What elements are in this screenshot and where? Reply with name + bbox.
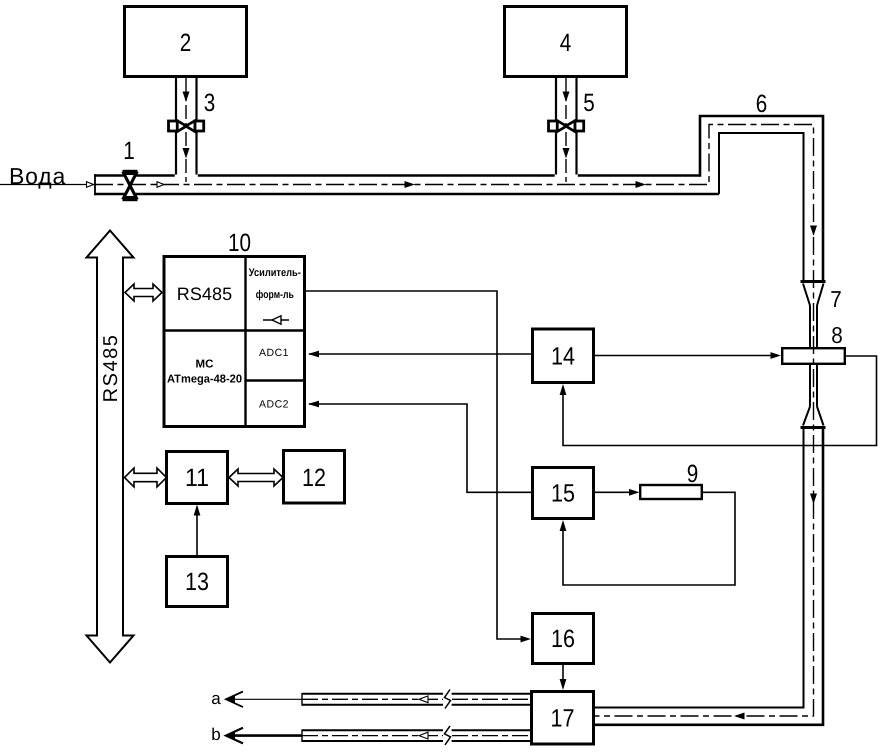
wire 16 to 17 xyxy=(562,665,564,680)
flow arrow down pipe2 lower xyxy=(183,148,190,159)
wire 15 to ADC2 xyxy=(309,404,532,492)
arrow into 17 top xyxy=(560,679,567,690)
wire output a xyxy=(227,698,302,700)
pipe main horizontal: top edge segments xyxy=(94,174,700,177)
pipe riser inner wall and top run inner edge and downpipe left wall xyxy=(719,133,804,282)
valve 3 on pipe2 xyxy=(169,121,204,132)
flow arrow downpipe upper xyxy=(810,226,817,237)
RS485 bus vertical double arrow xyxy=(87,231,134,663)
box 14 xyxy=(533,329,594,383)
arrow into element 9 xyxy=(629,489,640,496)
bus link arrow to RS485 cell xyxy=(125,284,162,301)
valve 1 on inlet xyxy=(123,170,138,201)
bus link arrow 11-12 xyxy=(229,469,283,486)
flow arrow downpipe lower xyxy=(810,494,817,505)
venturi 7 top flange xyxy=(801,280,826,283)
box 11 xyxy=(167,452,228,504)
pipe from tank 2 walls xyxy=(176,78,197,175)
bus link arrow bus-11 xyxy=(125,468,167,487)
box 13 xyxy=(167,557,228,607)
arrow output a xyxy=(226,692,243,708)
venturi 7 bottom flange xyxy=(801,426,826,429)
centerline pipe b xyxy=(302,735,530,737)
pipe down from venturi: left wall then top edge of bottom run xyxy=(595,429,804,708)
svg-text:ADC1: ADC1 xyxy=(259,347,289,359)
arrow into ADC2 xyxy=(308,401,319,408)
break symbol pipe a xyxy=(443,690,452,709)
pipe riser outer wall and top run and downpipe right wall xyxy=(700,116,823,282)
pipe b end cap xyxy=(301,729,303,742)
pipe main horizontal: end cap xyxy=(94,174,96,195)
hollow arrow inlet xyxy=(87,182,94,188)
svg-text:Усилитель-: Усилитель- xyxy=(249,267,301,279)
flow arrow down pipe4 upper xyxy=(563,92,570,103)
svg-text:4: 4 xyxy=(560,29,572,57)
svg-text:Вода: Вода xyxy=(9,163,66,189)
svg-text:a: a xyxy=(211,689,221,708)
arrow into sensor 8 xyxy=(771,352,782,359)
box 17 xyxy=(532,692,594,745)
pipe a end cap xyxy=(301,693,303,706)
flow arrow bottom run left xyxy=(734,713,745,720)
centerline main pipe run xyxy=(95,125,814,717)
svg-text:17: 17 xyxy=(551,705,575,733)
wire: inlet centerline left of pipe xyxy=(0,184,95,186)
tank 2 xyxy=(125,7,247,77)
venturi 7 throat walls xyxy=(810,306,817,407)
valve 5 on pipe4 xyxy=(549,121,584,132)
box 16 xyxy=(533,614,594,664)
svg-text:5: 5 xyxy=(583,89,595,117)
flow arrow main pipe mid xyxy=(405,181,416,188)
box 15 xyxy=(533,468,594,519)
svg-text:форм-ль: форм-ль xyxy=(256,289,294,301)
svg-text:9: 9 xyxy=(687,460,699,488)
svg-text:7: 7 xyxy=(830,286,842,312)
pipe down from venturi: right wall then bottom edge of bottom run xyxy=(595,429,824,725)
svg-text:6: 6 xyxy=(756,90,768,118)
arrow output b xyxy=(226,728,243,744)
wire sensor 8 feedback to 14 xyxy=(563,356,877,446)
svg-text:МС: МС xyxy=(196,359,214,371)
svg-text:16: 16 xyxy=(551,625,575,653)
svg-text:15: 15 xyxy=(551,480,575,508)
controller block 10 outer xyxy=(164,257,305,427)
wire 15 to element 9 xyxy=(595,491,630,493)
wire output b xyxy=(227,734,302,737)
pipe b walls xyxy=(302,730,530,741)
flow arrow main pipe right xyxy=(636,181,647,188)
arrow into 14 bottom xyxy=(560,384,567,395)
svg-text:b: b xyxy=(211,725,220,744)
svg-text:12: 12 xyxy=(302,464,326,492)
svg-text:11: 11 xyxy=(185,464,209,492)
box 12 xyxy=(284,451,345,504)
svg-text:1: 1 xyxy=(123,137,135,165)
flow arrow down pipe2 upper xyxy=(183,92,190,103)
hollow arrow pipe b xyxy=(419,732,428,739)
element 9 xyxy=(640,485,702,499)
svg-text:10: 10 xyxy=(228,229,251,257)
venturi 7 converging cone xyxy=(803,284,824,306)
wire 13 to 11 xyxy=(196,515,198,555)
hollow arrow in main pipe xyxy=(157,182,164,188)
svg-text:ATmega-48-20: ATmega-48-20 xyxy=(167,374,242,386)
centerline pipe from tank 2 xyxy=(185,78,187,184)
svg-text:8: 8 xyxy=(831,322,843,348)
break symbol pipe b xyxy=(443,726,452,745)
pipe from tank 4 walls xyxy=(556,78,577,175)
centerline pipe a xyxy=(302,698,530,700)
arrow into 15 bottom xyxy=(560,520,567,531)
svg-text:RS485: RS485 xyxy=(100,334,122,403)
arrow into ADC1 xyxy=(308,351,319,358)
svg-text:2: 2 xyxy=(180,29,192,57)
arrow into 16 xyxy=(521,636,532,643)
arrow into 11 bottom xyxy=(194,505,201,516)
wire 14 to sensor 8 xyxy=(595,355,771,357)
hollow arrow pipe a xyxy=(419,696,428,703)
svg-text:ADC2: ADC2 xyxy=(259,399,289,411)
svg-text:14: 14 xyxy=(551,343,575,371)
wire ADC1 to 14 xyxy=(309,353,532,355)
amplifier symbol xyxy=(263,316,289,324)
svg-text:RS485: RS485 xyxy=(177,284,233,304)
pipe main horizontal: bottom edge xyxy=(94,193,719,196)
pipe a walls xyxy=(302,694,530,705)
flow arrow down pipe4 lower xyxy=(563,148,570,159)
venturi 7 diverging cone xyxy=(803,407,824,426)
svg-text:3: 3 xyxy=(204,89,216,117)
wire amplifier to 16 xyxy=(306,291,521,639)
controller block 10 dividers xyxy=(164,257,305,427)
tank 4 xyxy=(505,7,627,77)
wire element 9 feedback to 15 xyxy=(563,492,735,585)
sensor 8 on throat xyxy=(782,348,845,364)
centerline pipe from tank 4 xyxy=(565,78,567,184)
svg-text:13: 13 xyxy=(185,568,209,596)
